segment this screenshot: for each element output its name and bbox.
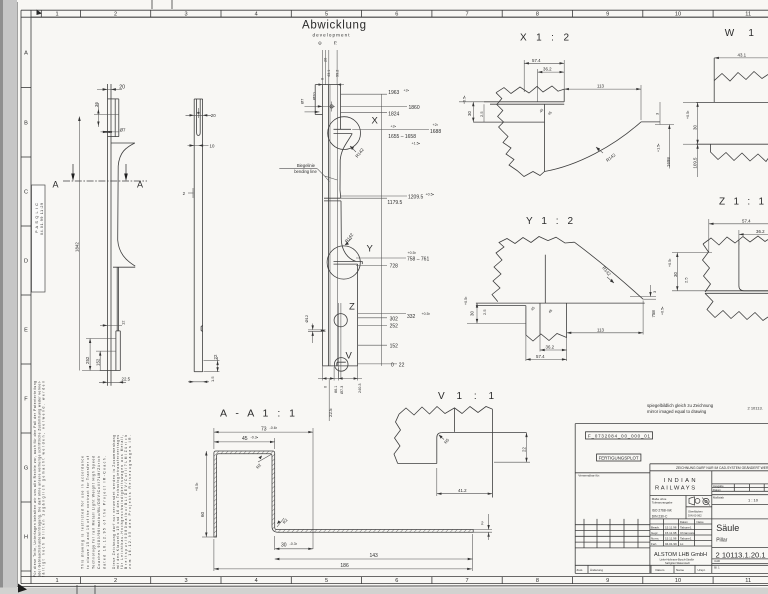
svg-text:758 – 761: 758 – 761 (407, 257, 429, 263)
svg-text:3: 3 (184, 12, 187, 18)
svg-text:F_0732084_00_000_01: F_0732084_00_000_01 (588, 434, 651, 439)
svg-text:-0.3▪: -0.3▪ (290, 542, 297, 546)
svg-text:Y: Y (367, 244, 374, 255)
svg-text:5: 5 (325, 12, 328, 18)
svg-text:4: 4 (255, 578, 258, 584)
svg-text:C: C (24, 190, 28, 196)
svg-text:186: 186 (340, 563, 349, 569)
svg-text:Gepr.: Gepr. (651, 531, 659, 535)
svg-text:Salzgitter-Watenstedt: Salzgitter-Watenstedt (665, 561, 690, 565)
svg-text:8: 8 (536, 12, 539, 18)
svg-text:2.5: 2.5 (684, 277, 689, 283)
svg-text:758: 758 (651, 310, 656, 318)
svg-text:9: 9 (606, 12, 609, 18)
svg-text:22: 22 (521, 447, 526, 452)
svg-text:22: 22 (399, 363, 405, 369)
svg-text:Lü: Lü (680, 542, 684, 546)
svg-text:D: D (24, 259, 28, 265)
svg-text:57.4: 57.4 (742, 218, 751, 223)
svg-text:7: 7 (465, 578, 468, 584)
svg-text:+2▪: +2▪ (391, 124, 396, 128)
svg-text:113: 113 (597, 84, 605, 89)
svg-text:Zust.: Zust. (577, 568, 584, 572)
svg-text:Bl. 1: Bl. 1 (714, 565, 720, 569)
svg-text:Ausgabe: Ausgabe (713, 484, 724, 488)
svg-text:1860: 1860 (409, 105, 420, 111)
svg-text:+1.5▪: +1.5▪ (656, 144, 660, 152)
svg-text:36.2: 36.2 (546, 345, 555, 350)
svg-text:36.2: 36.2 (756, 229, 765, 234)
svg-text:to clause 15 and 16 of the con: to clause 15 and 16 of the contract for … (86, 456, 90, 569)
svg-text:G: G (24, 466, 28, 472)
svg-text:30: 30 (281, 542, 287, 548)
svg-text:152: 152 (390, 344, 399, 350)
svg-text:Änderung: Änderung (590, 568, 603, 572)
svg-text:spiegelbildlich gleich zu Zeic: spiegelbildlich gleich zu Zeichnung (647, 403, 714, 408)
svg-text:-0.3▪: -0.3▪ (251, 436, 258, 440)
svg-text:143: 143 (370, 553, 379, 559)
svg-text:1209.5: 1209.5 (408, 195, 424, 201)
svg-text:-0.6▪: -0.6▪ (270, 426, 277, 430)
svg-text:Pillar: Pillar (716, 538, 727, 544)
svg-text:15.11.98: 15.11.98 (665, 526, 677, 530)
svg-text:0: 0 (320, 78, 324, 80)
svg-text:A: A (137, 180, 143, 190)
svg-text:10: 10 (675, 578, 681, 584)
svg-text:1 : 10: 1 : 10 (748, 498, 759, 503)
svg-text:Abwicklung: Abwicklung (302, 20, 366, 32)
svg-text:Toleranzangabe: Toleranzangabe (652, 501, 673, 505)
svg-text:43.1: 43.1 (327, 70, 331, 77)
svg-text:+0.5▪: +0.5▪ (660, 307, 664, 315)
svg-text:Säule: Säule (716, 523, 739, 533)
svg-text:302: 302 (390, 316, 399, 322)
svg-text:ISO 2768-mK: ISO 2768-mK (652, 508, 673, 512)
svg-text:2 10113.1.20.1: 2 10113.1.20.1 (716, 550, 766, 559)
svg-text:57.4: 57.4 (536, 354, 545, 359)
svg-text:A: A (24, 51, 28, 57)
svg-text:+0.5▪: +0.5▪ (464, 297, 468, 305)
svg-text:RAILWAYS: RAILWAYS (655, 486, 697, 492)
svg-text:+2▪: +2▪ (433, 123, 438, 127)
svg-text:1698: 1698 (666, 157, 671, 167)
svg-text:+0.5▪: +0.5▪ (462, 96, 466, 104)
svg-text:15.11.98: 15.11.98 (665, 537, 677, 541)
svg-text:Bearb.: Bearb. (651, 526, 660, 530)
svg-text:Oberflächen: Oberflächen (688, 509, 703, 513)
svg-text:DIN 230-C: DIN 230-C (652, 514, 668, 518)
svg-text:99.2: 99.2 (335, 70, 339, 77)
svg-text:20: 20 (211, 113, 216, 118)
svg-text:3: 3 (184, 578, 187, 584)
svg-text:60: 60 (200, 511, 205, 517)
svg-text:332: 332 (407, 314, 416, 320)
svg-text:10: 10 (210, 144, 215, 149)
svg-text:04.01.99: 04.01.99 (665, 542, 677, 546)
svg-text:Chramosta: Chramosta (680, 531, 695, 535)
svg-text:development: development (313, 33, 351, 38)
svg-text:V: V (346, 351, 353, 362)
svg-text:H: H (24, 535, 28, 541)
svg-text:Biegelinie: Biegelinie (297, 163, 316, 168)
svg-text:73: 73 (261, 426, 267, 432)
svg-text:728: 728 (390, 264, 399, 270)
svg-text:Ø7.3: Ø7.3 (340, 386, 344, 394)
svg-text:11: 11 (745, 12, 751, 18)
svg-text:1179.5: 1179.5 (387, 200, 402, 206)
svg-text:152: 152 (95, 358, 100, 366)
svg-text:bending line: bending line (294, 169, 317, 174)
svg-text:86.1: 86.1 (334, 386, 338, 393)
svg-text:+0.5▪: +0.5▪ (408, 251, 416, 255)
svg-text:20: 20 (119, 85, 125, 91)
svg-text:30: 30 (470, 311, 475, 316)
svg-text:6: 6 (395, 12, 398, 18)
svg-text:7: 7 (465, 12, 468, 18)
svg-text:Ø12: Ø12 (304, 314, 309, 322)
svg-text:Datum: Datum (713, 488, 722, 492)
svg-text:E: E (24, 328, 28, 334)
svg-text:22: 22 (213, 354, 218, 359)
svg-text:DIN 60 062: DIN 60 062 (688, 513, 702, 517)
svg-text:⊖: ⊖ (318, 41, 322, 46)
svg-text:45: 45 (242, 436, 248, 442)
svg-text:1824: 1824 (388, 111, 399, 117)
svg-text:+0.5▪: +0.5▪ (426, 193, 434, 197)
svg-text:Ø7: Ø7 (300, 98, 305, 104)
svg-text:5: 5 (325, 578, 328, 584)
svg-text:113: 113 (597, 327, 605, 332)
svg-text:F: F (24, 397, 28, 403)
svg-text:2.5: 2.5 (479, 111, 484, 117)
svg-text:252: 252 (85, 356, 90, 364)
svg-text:1688: 1688 (430, 129, 441, 135)
svg-text:+0.5▪: +0.5▪ (668, 259, 672, 267)
svg-text:30: 30 (692, 125, 697, 130)
svg-text:8: 8 (536, 578, 539, 584)
svg-text:+2▪: +2▪ (404, 89, 409, 93)
svg-text:ZEICHNUNG DARF NUR IM CAD-SYST: ZEICHNUNG DARF NUR IM CAD-SYSTEM GEÄNDER… (676, 466, 768, 470)
svg-text:15.11.98: 15.11.98 (665, 531, 677, 535)
svg-text:10: 10 (675, 12, 681, 18)
svg-text:Ø7: Ø7 (120, 127, 126, 132)
svg-text:Ø20: Ø20 (312, 92, 317, 100)
svg-text:1: 1 (55, 578, 58, 584)
svg-text:+0.5▪: +0.5▪ (686, 111, 690, 119)
svg-text:B: B (24, 121, 28, 127)
svg-text:1.5: 1.5 (210, 376, 215, 382)
svg-text:75: 75 (334, 41, 338, 45)
svg-text:2.5: 2.5 (482, 309, 487, 315)
svg-text:43.1: 43.1 (738, 52, 747, 57)
svg-text:1963: 1963 (388, 90, 399, 96)
svg-text:2: 2 (114, 578, 117, 584)
svg-text:1655 – 1658: 1655 – 1658 (388, 134, 416, 140)
svg-text:Coaches 9080/96/malbu/BL/DEV/C: Coaches 9080/96/malbu/BL/DEV/Coll/7LM/Zü… (97, 456, 101, 569)
svg-text:+0.5▪: +0.5▪ (195, 483, 199, 491)
svg-text:Technology for rail Metall Lig: Technology for rail Metall Light Weight … (92, 456, 96, 569)
svg-text:22.5: 22.5 (122, 376, 131, 381)
svg-text:vom 16.12.95 des Projekts Reis: vom 16.12.95 des Projekts Reisezugwagen … (128, 435, 132, 569)
svg-text:11: 11 (745, 578, 751, 584)
svg-text:FERTIGUNGSPLOT: FERTIGUNGSPLOT (599, 456, 639, 461)
svg-text:Fert.: Fert. (651, 542, 657, 546)
svg-text:1: 1 (55, 12, 58, 18)
svg-text:1842: 1842 (74, 242, 79, 252)
svg-text:2: 2 (114, 12, 117, 18)
svg-text:2 10113.: 2 10113. (748, 406, 763, 411)
svg-text:36.2: 36.2 (543, 67, 552, 72)
svg-text:+0.5▪: +0.5▪ (422, 312, 430, 316)
svg-text:X: X (372, 116, 379, 127)
svg-text:dated 16.12.95 of the Project: dated 16.12.95 of the Project IR-Coach. (103, 456, 107, 569)
svg-text:57.4: 57.4 (532, 58, 541, 63)
svg-text:Tabone1: Tabone1 (680, 526, 692, 530)
svg-text:ALSTOM LHB GmbH: ALSTOM LHB GmbH (654, 552, 707, 558)
svg-text:04.01.99 11:29: 04.01.99 11:29 (40, 203, 44, 235)
svg-text:30: 30 (467, 111, 472, 116)
svg-text:6: 6 (395, 578, 398, 584)
svg-text:Datum: Datum (656, 568, 665, 572)
svg-text:4: 4 (255, 12, 258, 18)
svg-text:20: 20 (324, 58, 328, 62)
svg-text:22.5: 22.5 (328, 408, 333, 417)
svg-text:A: A (53, 180, 59, 190)
svg-text:Verwendbar für:: Verwendbar für: (578, 473, 600, 477)
svg-text:12: 12 (121, 320, 126, 325)
svg-text:Urspr.: Urspr. (698, 568, 706, 572)
svg-text:Z: Z (349, 302, 355, 313)
svg-text:41.2: 41.2 (458, 488, 467, 493)
svg-text:240.3: 240.3 (358, 383, 362, 393)
svg-text:CAD: CAD (714, 559, 720, 563)
svg-text:INDIAN: INDIAN (664, 478, 698, 484)
svg-text:252: 252 (390, 324, 399, 330)
svg-text:109.5: 109.5 (692, 157, 697, 169)
svg-text:Name: Name (676, 568, 684, 572)
svg-text:2: 2 (481, 521, 484, 526)
svg-text:Tabone1: Tabone1 (680, 537, 692, 541)
svg-text:This drawing is restricted for: This drawing is restricted for use in ac… (81, 456, 85, 569)
svg-text:Linke-Hofmann-Busch-Straße: Linke-Hofmann-Busch-Straße (660, 557, 695, 561)
svg-text:Maßstab: Maßstab (713, 496, 724, 500)
svg-text:9: 9 (606, 578, 609, 584)
svg-text:A - A 1 : 1: A - A 1 : 1 (220, 408, 295, 420)
svg-text:0: 0 (391, 363, 394, 369)
svg-text:Norm.: Norm. (651, 537, 659, 541)
svg-text:mirror imaged equal to drawing: mirror imaged equal to drawing (647, 409, 707, 414)
svg-text:+1.5▪: +1.5▪ (412, 142, 420, 146)
svg-text:0: 0 (323, 386, 327, 388)
